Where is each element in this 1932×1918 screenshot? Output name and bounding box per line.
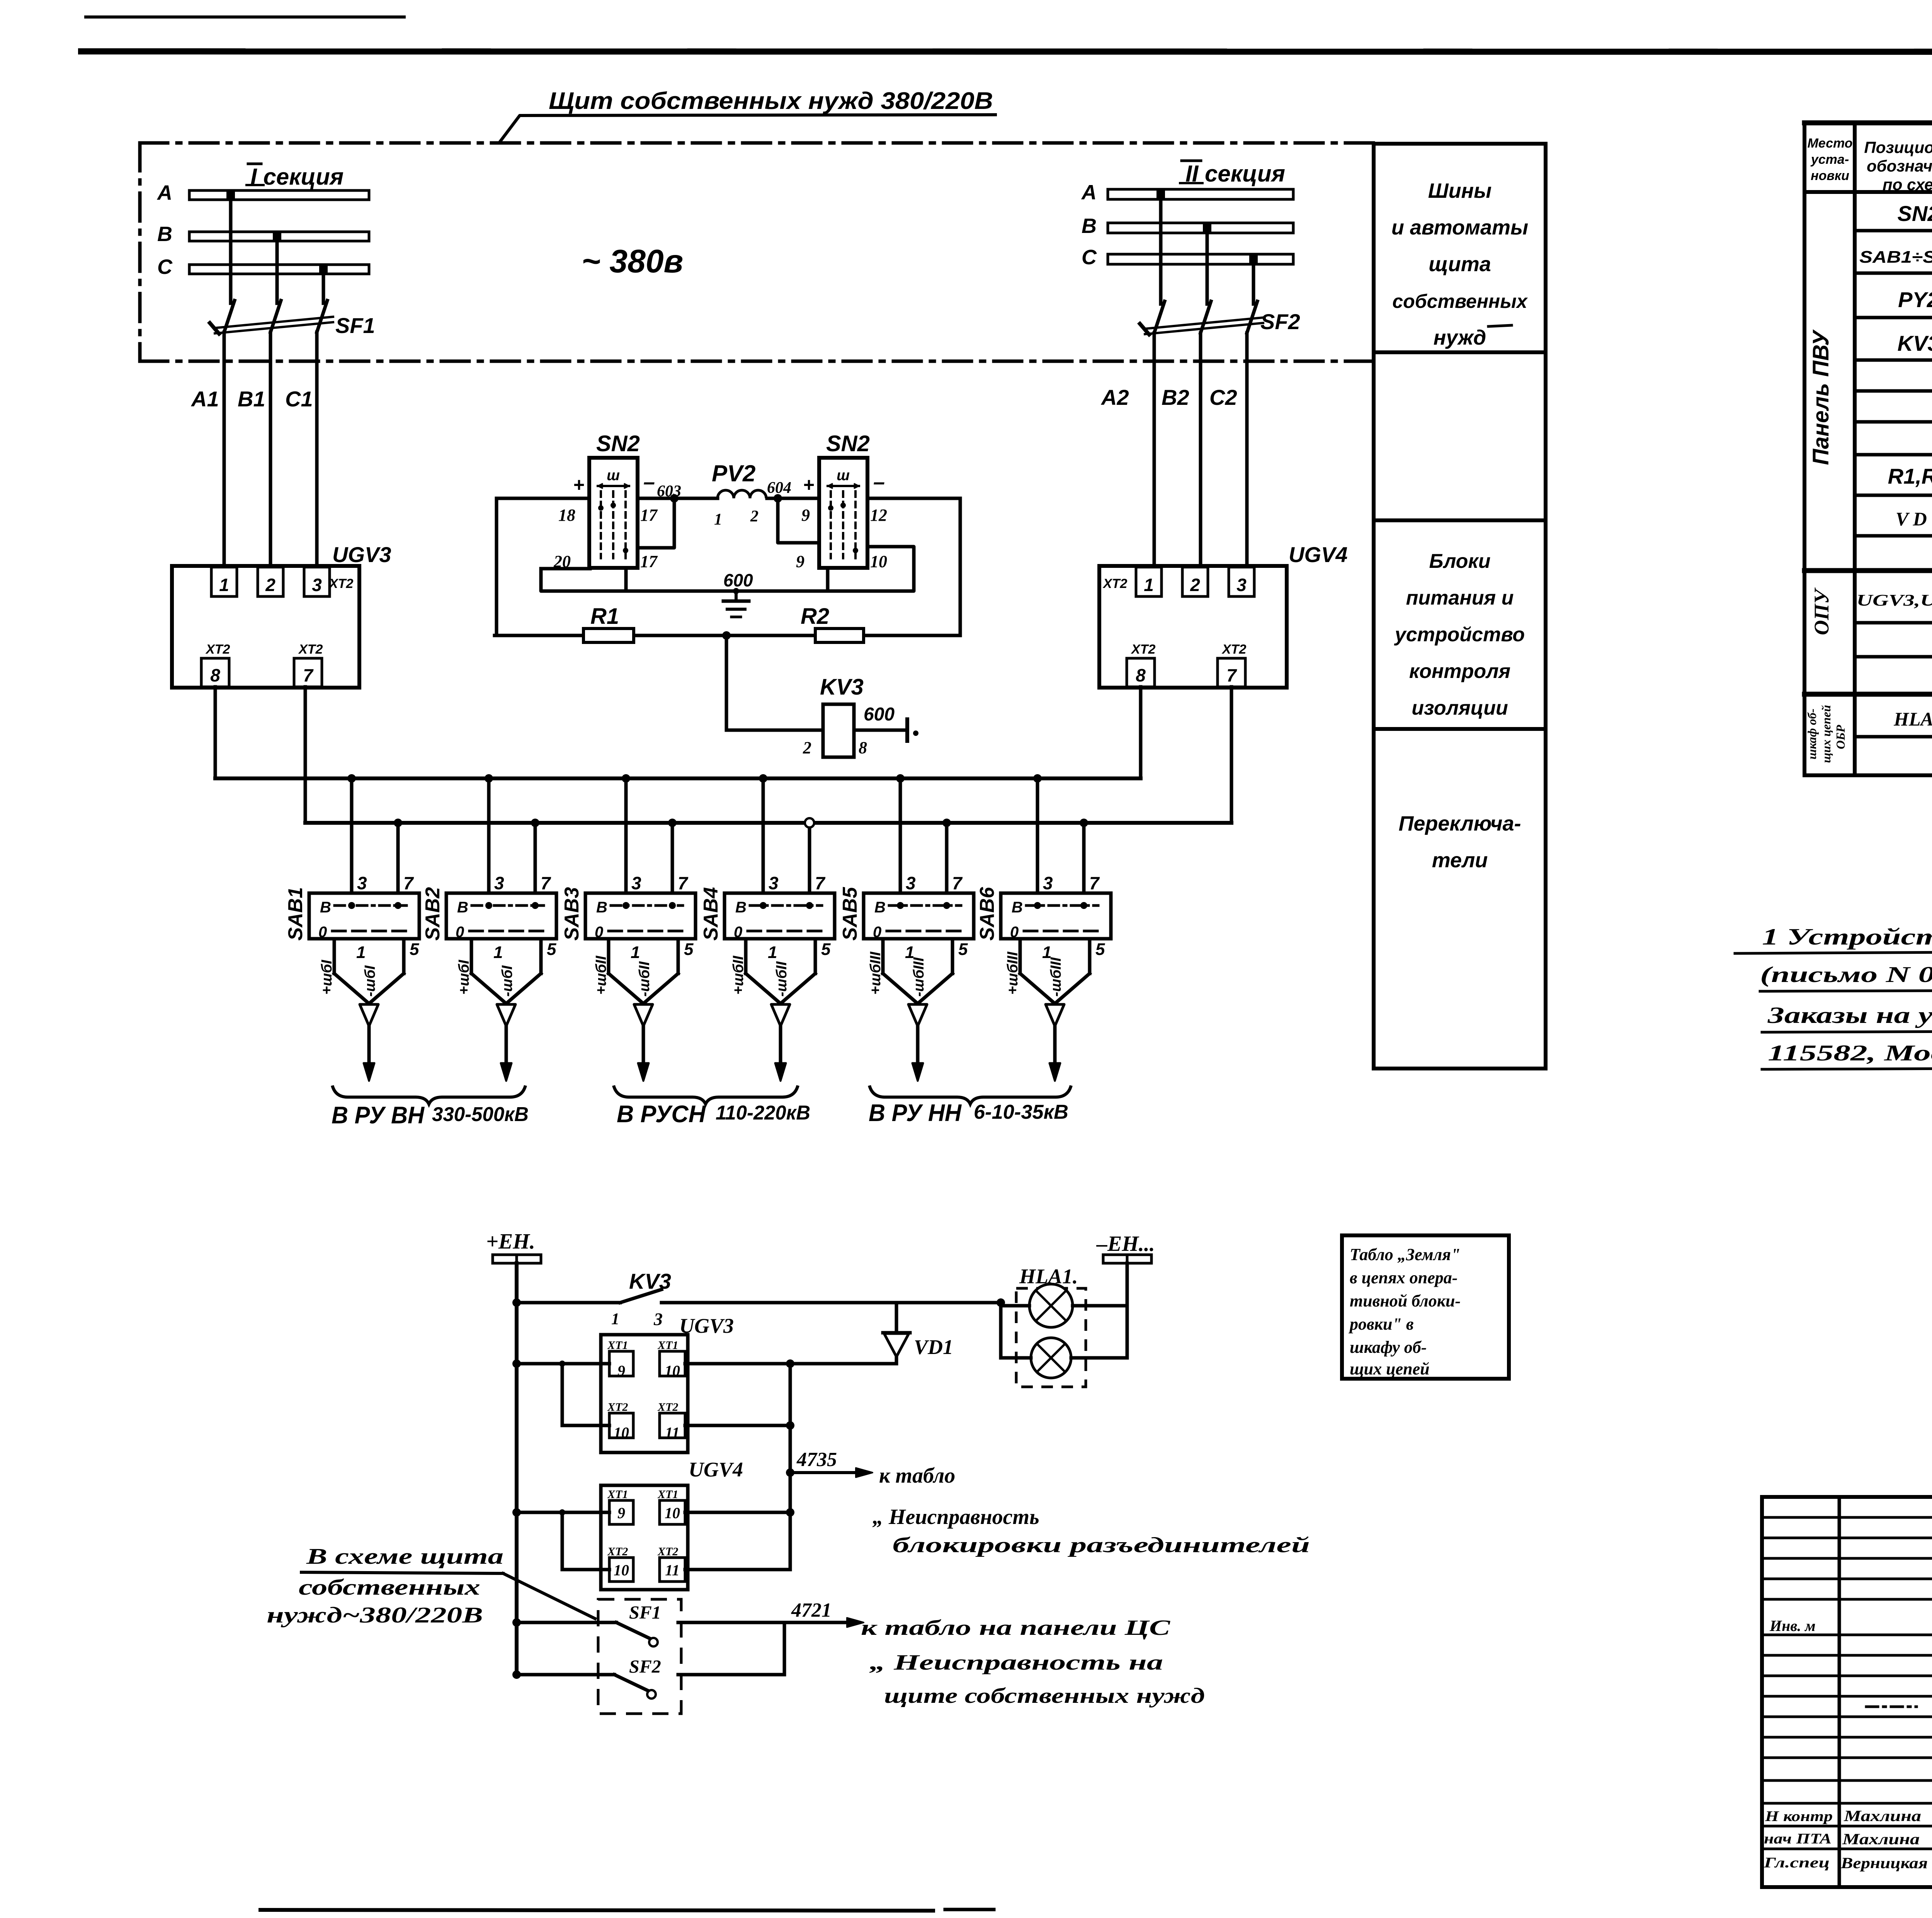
- svg-text:3: 3: [653, 1309, 663, 1329]
- svg-text:С1: С1: [285, 387, 313, 411]
- svg-text:ХТ2: ХТ2: [1131, 642, 1155, 657]
- svg-text:к табло: к табло: [879, 1464, 955, 1488]
- svg-text:в цепях опера-: в цепях опера-: [1350, 1268, 1458, 1287]
- svg-text:SAB6: SAB6: [976, 887, 998, 941]
- svg-text:ХТ2: ХТ2: [657, 1401, 678, 1413]
- svg-text:SAB1: SAB1: [284, 887, 307, 941]
- svg-text:ш: ш: [607, 467, 620, 484]
- svg-text:10: 10: [665, 1362, 680, 1379]
- svg-text:-шбI: -шбI: [362, 965, 378, 997]
- svg-text:Позиционное: Позиционное: [1864, 138, 1932, 156]
- svg-text:11: 11: [665, 1561, 680, 1579]
- svg-text:3: 3: [1043, 873, 1053, 893]
- svg-text:6-10-35кВ: 6-10-35кВ: [974, 1101, 1068, 1123]
- svg-text:5: 5: [821, 940, 831, 959]
- svg-text:тивной блоки-: тивной блоки-: [1350, 1291, 1461, 1310]
- svg-text:+ЕН.: +ЕН.: [486, 1230, 535, 1254]
- svg-text:R1: R1: [590, 604, 619, 629]
- svg-text:Шины: Шины: [1428, 179, 1492, 202]
- svg-text:3: 3: [494, 873, 504, 893]
- svg-text:питания и: питания и: [1406, 587, 1514, 609]
- svg-text:устройство: устройство: [1394, 623, 1525, 646]
- svg-text:щих цепей: щих цепей: [1350, 1359, 1430, 1378]
- svg-text:ОБР: ОБР: [1833, 725, 1847, 749]
- svg-text:10: 10: [614, 1561, 629, 1579]
- svg-text:SAB5: SAB5: [839, 887, 861, 941]
- svg-text:ХТ1: ХТ1: [657, 1339, 678, 1352]
- svg-text:SF1: SF1: [629, 1602, 661, 1623]
- svg-text:В: В: [1012, 899, 1023, 916]
- svg-text:Переключа-: Переключа-: [1399, 812, 1521, 835]
- svg-text:В РУ ВН: В РУ ВН: [332, 1102, 425, 1129]
- svg-text:новки: новки: [1811, 168, 1849, 183]
- svg-text:1: 1: [356, 943, 366, 962]
- svg-text:В1: В1: [238, 387, 265, 411]
- svg-text:9: 9: [801, 506, 810, 525]
- svg-text:0: 0: [318, 924, 327, 941]
- svg-text:–ЕН...: –ЕН...: [1096, 1232, 1155, 1256]
- svg-text:-шбI: -шбI: [499, 965, 515, 997]
- svg-text:Заказы на устройство направлят: Заказы на устройство направлять по адрес…: [1767, 1002, 1932, 1028]
- svg-text:к табло на панели ЦС: к табло на панели ЦС: [861, 1616, 1170, 1640]
- svg-text:С: С: [157, 255, 173, 279]
- svg-text:Махлина: Махлина: [1842, 1830, 1920, 1848]
- svg-text:9: 9: [617, 1362, 625, 1379]
- svg-text:В: В: [596, 899, 607, 916]
- svg-text:А2: А2: [1100, 385, 1129, 409]
- svg-text:330-500кВ: 330-500кВ: [432, 1103, 529, 1126]
- svg-text:3: 3: [1236, 575, 1247, 595]
- svg-text:ХТ2: ХТ2: [1221, 642, 1246, 657]
- svg-text:0: 0: [734, 924, 742, 941]
- svg-text:3: 3: [769, 873, 779, 893]
- svg-text:2: 2: [1190, 575, 1200, 595]
- svg-text:7: 7: [952, 873, 963, 893]
- svg-text:8: 8: [859, 738, 867, 757]
- svg-text:ХТ2: ХТ2: [298, 642, 323, 657]
- svg-text:17: 17: [640, 506, 658, 525]
- svg-text:8: 8: [1136, 665, 1146, 685]
- svg-text:3: 3: [631, 873, 641, 893]
- svg-text:7: 7: [541, 873, 551, 893]
- svg-text:SF2: SF2: [1260, 309, 1300, 334]
- svg-text:~ 380в: ~ 380в: [582, 243, 683, 279]
- svg-text:В: В: [874, 899, 886, 916]
- svg-text:ХТ1: ХТ1: [657, 1488, 678, 1501]
- svg-text:604: 604: [767, 479, 791, 497]
- svg-text:ХТ2: ХТ2: [657, 1545, 678, 1558]
- svg-text:В РУСН: В РУСН: [617, 1101, 706, 1128]
- svg-text:нач ПТА: нач ПТА: [1764, 1831, 1832, 1847]
- svg-text:А: А: [1081, 181, 1097, 204]
- svg-text:110-220кВ: 110-220кВ: [716, 1102, 810, 1124]
- svg-text:UGV4: UGV4: [689, 1458, 743, 1481]
- svg-text:-шбII: -шбII: [774, 961, 790, 997]
- svg-text:UGV3: UGV3: [332, 542, 391, 567]
- svg-text:0: 0: [595, 924, 603, 941]
- svg-text:ХТ1: ХТ1: [607, 1488, 628, 1501]
- svg-text:5: 5: [547, 940, 556, 959]
- svg-text:(письмо N 02-6-11/4˙3 от 03.06: (письмо N 02-6-11/4˙3 от 03.06.94) РАО Е…: [1760, 962, 1932, 987]
- svg-text:4735: 4735: [796, 1449, 837, 1471]
- svg-text:2: 2: [803, 738, 811, 757]
- svg-text:В: В: [157, 223, 172, 246]
- svg-text:2: 2: [750, 508, 759, 525]
- svg-text:5: 5: [410, 940, 419, 959]
- svg-text:4721: 4721: [791, 1599, 832, 1621]
- svg-text:SF2: SF2: [629, 1656, 661, 1677]
- svg-text:Верницкая: Верницкая: [1840, 1854, 1928, 1872]
- svg-text:по схеме: по схеме: [1883, 175, 1932, 194]
- svg-text:KV3: KV3: [1898, 331, 1932, 355]
- svg-text:ХТ2: ХТ2: [205, 642, 230, 657]
- svg-text:ХТ2: ХТ2: [328, 576, 353, 591]
- svg-text:7: 7: [1089, 873, 1100, 893]
- svg-text:3: 3: [357, 873, 367, 893]
- svg-text:щих цепей: щих цепей: [1819, 705, 1833, 763]
- svg-text:7: 7: [815, 873, 826, 893]
- svg-text:1: 1: [493, 943, 503, 962]
- svg-text:1: 1: [631, 943, 640, 962]
- svg-text:нужд: нужд: [1434, 326, 1486, 349]
- svg-text:SAB4: SAB4: [700, 887, 722, 941]
- svg-text:Щит собственных нужд 380/220В: Щит собственных нужд 380/220В: [549, 88, 993, 114]
- svg-text:ХТ2: ХТ2: [607, 1401, 628, 1413]
- svg-text:5: 5: [1095, 940, 1105, 959]
- svg-text:ХТ1: ХТ1: [607, 1339, 628, 1352]
- svg-text:+: +: [573, 474, 584, 496]
- svg-text:0: 0: [873, 924, 881, 941]
- svg-text:7: 7: [303, 665, 314, 685]
- svg-text:1: 1: [611, 1310, 619, 1328]
- svg-text:собственных: собственных: [299, 1575, 480, 1600]
- svg-text:нужд~380/220В: нужд~380/220В: [267, 1602, 483, 1627]
- svg-text:KV3: KV3: [820, 674, 864, 700]
- svg-text:уста-: уста-: [1810, 152, 1849, 167]
- svg-text:ХТ2: ХТ2: [607, 1545, 628, 1558]
- svg-text:SN2: SN2: [826, 431, 870, 456]
- svg-text:В2: В2: [1162, 385, 1189, 409]
- svg-text:Инв. м: Инв. м: [1769, 1617, 1816, 1634]
- svg-text:9: 9: [796, 552, 804, 571]
- svg-text:ровки" в: ровки" в: [1348, 1315, 1414, 1334]
- svg-text:SN2: SN2: [596, 431, 640, 456]
- svg-text:собственных: собственных: [1392, 291, 1528, 312]
- svg-text:R1,R2: R1,R2: [1888, 464, 1932, 488]
- svg-text:3: 3: [312, 575, 322, 595]
- svg-text:1: 1: [768, 943, 777, 962]
- svg-text:-шбIII: -шбIII: [1048, 957, 1064, 997]
- svg-text:3: 3: [906, 873, 916, 893]
- svg-text:-шбII: -шбII: [636, 961, 653, 997]
- svg-text:1: 1: [1144, 575, 1154, 595]
- svg-text:7: 7: [678, 873, 689, 893]
- svg-text:V D 1: V D 1: [1896, 508, 1932, 530]
- svg-text:7: 7: [1226, 665, 1237, 685]
- svg-text:В РУ НН: В РУ НН: [869, 1100, 962, 1126]
- svg-text:щите собственных нужд: щите собственных нужд: [884, 1684, 1205, 1708]
- svg-text:А1: А1: [190, 387, 219, 411]
- svg-text:5: 5: [958, 940, 968, 959]
- svg-text:9: 9: [617, 1504, 625, 1522]
- svg-text:115582, Москва (/я 3, ТОО „Эле: 115582, Москва (/я 3, ТОО „Электропривод…: [1768, 1040, 1932, 1065]
- svg-text:0: 0: [1010, 924, 1019, 941]
- svg-text:Блоки: Блоки: [1429, 550, 1491, 573]
- svg-text:VD1: VD1: [914, 1335, 953, 1359]
- svg-text:контроля: контроля: [1409, 660, 1510, 683]
- svg-text:8: 8: [210, 665, 220, 685]
- svg-text:Махлина: Махлина: [1844, 1807, 1921, 1825]
- svg-text:UGV3,UGV4: UGV3,UGV4: [1857, 592, 1932, 610]
- svg-text:Гл.спец: Гл.спец: [1764, 1855, 1830, 1871]
- svg-text:щита: щита: [1429, 253, 1491, 276]
- svg-text:С2: С2: [1209, 385, 1237, 409]
- svg-text:HLA1: HLA1: [1893, 708, 1932, 730]
- svg-text:В: В: [1082, 214, 1097, 238]
- svg-text:В: В: [457, 899, 468, 916]
- svg-text:В схеме щита: В схеме щита: [306, 1544, 503, 1569]
- svg-text:+: +: [803, 474, 814, 496]
- svg-text:SF1: SF1: [335, 313, 375, 338]
- svg-text:PV2: PV2: [712, 460, 755, 486]
- svg-text:С: С: [1082, 246, 1097, 269]
- svg-text:блокировки разъединителей: блокировки разъединителей: [893, 1533, 1310, 1557]
- svg-text:1: 1: [714, 511, 722, 528]
- svg-text:–: –: [873, 471, 885, 494]
- svg-text:10: 10: [665, 1504, 680, 1522]
- svg-text:18: 18: [558, 506, 575, 525]
- svg-text:–: –: [643, 471, 655, 494]
- svg-text:17: 17: [640, 552, 658, 571]
- svg-text:шкафу об-: шкафу об-: [1350, 1338, 1427, 1357]
- svg-text:ХТ2: ХТ2: [1102, 576, 1127, 591]
- svg-text:11: 11: [665, 1424, 680, 1441]
- svg-text:и автоматы: и автоматы: [1391, 216, 1528, 239]
- svg-text:603: 603: [657, 482, 681, 500]
- svg-text:В: В: [735, 899, 747, 916]
- svg-text:UGV4: UGV4: [1289, 542, 1348, 567]
- svg-text:ш: ш: [837, 467, 850, 484]
- svg-text:В: В: [320, 899, 331, 916]
- svg-text:Место: Место: [1807, 136, 1852, 151]
- svg-text:„ Неисправность: „ Неисправность: [872, 1505, 1039, 1529]
- svg-text:600: 600: [864, 704, 895, 725]
- svg-text:А: А: [156, 181, 172, 204]
- svg-text:ОПУ: ОПУ: [1810, 587, 1833, 635]
- svg-text:10: 10: [870, 552, 887, 571]
- svg-text:-шбIII: -шбIII: [911, 957, 927, 997]
- svg-text:600: 600: [723, 570, 753, 590]
- svg-text:1: 1: [219, 575, 229, 595]
- svg-text:SAB3: SAB3: [561, 887, 583, 941]
- svg-text:Н контр: Н контр: [1765, 1808, 1833, 1825]
- svg-text:R2: R2: [801, 604, 829, 629]
- svg-text:2: 2: [265, 575, 276, 595]
- svg-text:10: 10: [614, 1424, 629, 1441]
- svg-text:7: 7: [403, 873, 414, 893]
- svg-text:SAB2: SAB2: [422, 887, 444, 941]
- svg-text:KV3: KV3: [629, 1269, 671, 1293]
- svg-text:тели: тели: [1432, 849, 1488, 872]
- svg-text:0: 0: [456, 924, 464, 941]
- svg-text:5: 5: [684, 940, 694, 959]
- svg-text:1 Устройство УПНС 1М одобрено: 1 Устройство УПНС 1М одобрено к применен…: [1762, 924, 1932, 950]
- svg-text:SAB1÷SAB6: SAB1÷SAB6: [1859, 248, 1932, 267]
- svg-text:обозначение: обозначение: [1867, 157, 1932, 175]
- svg-text:шкаф об-: шкаф об-: [1805, 708, 1819, 759]
- svg-text:12: 12: [870, 506, 887, 525]
- svg-text:изоляции: изоляции: [1412, 697, 1508, 719]
- svg-text:Табло „Земля": Табло „Земля": [1350, 1245, 1460, 1264]
- svg-text:Панель ПВУ: Панель ПВУ: [1808, 329, 1833, 465]
- svg-text:РY2: РY2: [1898, 287, 1932, 312]
- svg-text:SN2: SN2: [1898, 201, 1932, 226]
- svg-text:„ Неисправность на: „ Неисправность на: [869, 1651, 1163, 1675]
